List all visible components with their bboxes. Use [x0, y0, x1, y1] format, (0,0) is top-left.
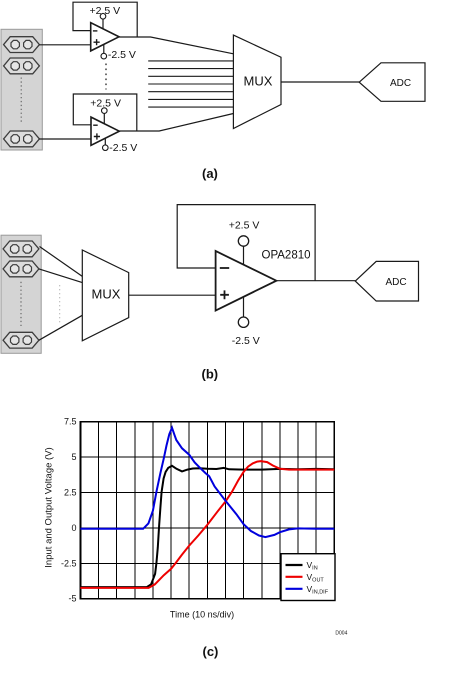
svg-text:-2.5: -2.5	[61, 558, 77, 568]
bus wire 6	[148, 98, 233, 100]
svg-text:MUX: MUX	[92, 287, 121, 302]
U2 minus pin label	[93, 124, 98, 126]
legend VIN,DIF sample	[286, 588, 303, 590]
bus wire 7	[148, 106, 233, 108]
svg-text:-2.5 V: -2.5 V	[108, 49, 136, 61]
svg-text:ADC: ADC	[386, 277, 407, 288]
feedback loop U3	[177, 205, 315, 281]
bus wire 4	[148, 83, 233, 85]
U3 -2.5V terminal	[238, 317, 248, 327]
op-amp U3 OPA2810	[216, 251, 277, 311]
svg-text:-2.5 V: -2.5 V	[109, 142, 137, 154]
trace VOUT red	[80, 461, 334, 588]
U1 +2.5V supply line	[102, 19, 104, 29]
U2 -2.5V supply line	[104, 138, 106, 145]
MUX A	[233, 35, 281, 128]
svg-text:+2.5 V: +2.5 V	[90, 5, 121, 17]
MUX B	[82, 250, 128, 341]
chart grid horizontal lines	[80, 457, 334, 563]
op-amp U1	[91, 23, 119, 51]
U3 minus pin label	[220, 267, 229, 269]
wire U1 output	[119, 37, 233, 54]
svg-text:ADC: ADC	[390, 78, 411, 89]
dotted line MUX inputs	[59, 285, 61, 322]
svg-text:7.5: 7.5	[64, 417, 77, 427]
dotted line sensors A	[20, 78, 22, 123]
U1 +2.5V terminal	[100, 13, 106, 19]
svg-text:Time (10 ns/div): Time (10 ns/div)	[170, 609, 234, 619]
svg-text:OPA2810: OPA2810	[262, 249, 311, 261]
U3 -2.5V supply line	[243, 297, 245, 317]
wire U3 output to ADC	[276, 280, 355, 282]
bus wire 5	[148, 91, 233, 93]
svg-text:(b): (b)	[202, 367, 219, 382]
U2 plus pin label	[94, 133, 100, 139]
ADC B	[355, 261, 418, 301]
U2 -2.5V terminal	[103, 145, 109, 151]
svg-text:MUX: MUX	[244, 74, 273, 89]
bus wire 1	[148, 60, 233, 62]
op-amp U2	[91, 117, 119, 145]
svg-text:(a): (a)	[202, 166, 218, 181]
sensor array box A	[1, 29, 42, 150]
U2 +2.5V terminal	[102, 108, 108, 114]
wire sensor A1 to U1 + input	[39, 44, 90, 46]
bus wire 2	[148, 68, 233, 70]
chart border	[80, 422, 334, 599]
svg-text:Input and Output Voltage (V): Input and Output Voltage (V)	[44, 447, 55, 567]
wire MUX B to op-amp + input	[129, 294, 216, 296]
svg-text:0: 0	[71, 523, 76, 533]
svg-text:-2.5 V: -2.5 V	[232, 335, 260, 347]
sensor B2	[3, 261, 39, 277]
U1 minus pin label	[93, 30, 98, 32]
sensor array box B	[1, 235, 41, 353]
bus wire 3	[148, 75, 233, 77]
svg-text:+2.5 V: +2.5 V	[90, 97, 121, 109]
legend VIN sample	[286, 564, 303, 566]
svg-text:-5: -5	[68, 594, 76, 604]
svg-text:5: 5	[71, 452, 76, 462]
dotted line between op-amps	[105, 64, 107, 90]
feedback loop U1	[73, 2, 137, 37]
U1 plus pin label	[94, 39, 100, 45]
svg-text:+2.5 V: +2.5 V	[229, 220, 260, 232]
wire sensor B1 to MUX	[40, 247, 83, 277]
trace VIN black	[80, 466, 334, 587]
sensor A2	[4, 58, 40, 74]
svg-text:(c): (c)	[203, 644, 219, 659]
wire sensor B2 to MUX	[39, 269, 82, 283]
U3 +2.5V supply line	[243, 246, 245, 264]
svg-text:2.5: 2.5	[64, 488, 77, 498]
feedback loop U2	[73, 94, 137, 131]
chart grid vertical lines	[99, 422, 317, 599]
sensor B1	[3, 241, 39, 257]
U1 -2.5V supply line	[103, 44, 105, 53]
wire MUX A to ADC	[281, 81, 359, 83]
wire sensor A3 to U2 + input	[39, 138, 91, 140]
sensor A3	[4, 131, 40, 147]
legend VOUT sample	[286, 576, 303, 578]
trace VIN,DIF blue	[80, 428, 334, 537]
U2 +2.5V supply line	[103, 113, 105, 123]
wire sensor B3 to MUX	[39, 315, 82, 340]
dotted line sensors B	[20, 282, 22, 328]
U3 plus pin label	[220, 290, 229, 299]
ADC A	[359, 63, 425, 102]
sensor B3	[3, 332, 39, 348]
U1 -2.5V terminal	[101, 53, 107, 59]
wire U2 output	[119, 114, 233, 132]
sensor A1	[4, 37, 40, 53]
legend box	[281, 554, 335, 601]
U3 +2.5V terminal	[238, 236, 248, 246]
svg-text:D004: D004	[335, 631, 347, 637]
